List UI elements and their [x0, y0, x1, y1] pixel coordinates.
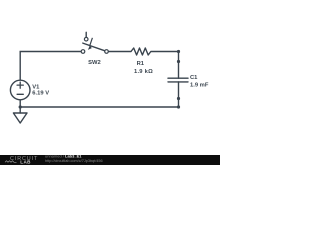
ground — [13, 113, 27, 123]
wire switch to resistor — [108, 51, 131, 53]
node ground junction — [19, 105, 22, 108]
switch SW2 — [81, 32, 108, 53]
wire capacitor bottom node down to bottom rail — [178, 99, 180, 108]
switch SW2 right terminal — [105, 50, 109, 54]
node bottom-right corner — [177, 105, 180, 108]
svg-text:LAB: LAB — [20, 159, 31, 164]
wire V1 bottom pin to ground — [19, 100, 21, 113]
voltage source V1 — [10, 80, 30, 100]
CircuitLab logo — [5, 156, 38, 164]
switch SW2 left terminal — [81, 50, 85, 54]
svg-text:R1: R1 — [137, 61, 145, 67]
wire resistor to top-right corner — [151, 51, 179, 53]
svg-text:6.19 V: 6.19 V — [32, 91, 49, 97]
switch SW2 blade — [83, 43, 105, 51]
node capacitor top pin — [177, 60, 180, 63]
wire top-right corner down to capacitor node — [178, 52, 180, 62]
wire bottom rail — [20, 106, 178, 108]
svg-text:SW2: SW2 — [88, 60, 101, 66]
switch SW2 actuation arrow — [88, 38, 93, 50]
svg-text:http://circuitlab.com/c/7Jp3bq: http://circuitlab.com/c/7Jp3bqt/456 — [45, 159, 103, 163]
svg-text:1.9 kΩ: 1.9 kΩ — [134, 69, 153, 75]
svg-text:V1: V1 — [32, 84, 40, 90]
svg-text:C1: C1 — [190, 75, 198, 81]
svg-text:1.9 mF: 1.9 mF — [190, 83, 209, 89]
resistor R1 — [131, 48, 151, 55]
switch SW2 top terminal — [84, 37, 88, 41]
switch SW2 top stub — [85, 32, 87, 37]
capacitor C1 — [168, 62, 188, 99]
wire top rail left segment — [20, 52, 81, 81]
node capacitor bottom pin — [177, 97, 180, 100]
node top-right corner — [177, 50, 180, 53]
watermark footer bar — [0, 155, 220, 165]
